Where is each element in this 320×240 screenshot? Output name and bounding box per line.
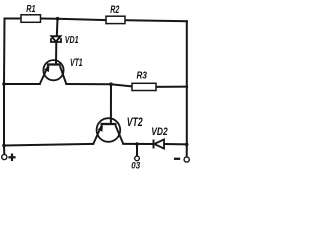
junction right rail / R3 — [185, 85, 188, 88]
svg-text:R2: R2 — [110, 4, 120, 16]
junction node A — [56, 17, 60, 21]
wire left rail — [3, 19, 6, 155]
junction left rail / VT1 emitter — [2, 82, 6, 86]
svg-text:VD2: VD2 — [151, 126, 168, 139]
svg-text:VT2: VT2 — [127, 117, 143, 130]
wire R1 to R2 through node A — [41, 19, 107, 21]
resistor R1 — [21, 3, 41, 22]
wire VT1 collector to node B — [66, 84, 132, 86]
wire VT2 collector to VD2 anode side — [123, 143, 152, 145]
terminal minus — [174, 157, 189, 162]
junction node B — [109, 82, 113, 86]
terminal output — [131, 156, 140, 170]
junction right rail / VD2 — [185, 143, 189, 147]
zener diode VD1 — [51, 34, 79, 45]
wire node B to VT2 base — [110, 84, 112, 124]
wire VD2 to right rail — [164, 143, 187, 145]
minus sign — [174, 158, 180, 160]
wire R3 to right rail — [156, 86, 187, 88]
junction bottom-left — [2, 144, 6, 148]
wire node A down to VD1 — [56, 19, 59, 37]
wire R2 to top-right corner — [125, 20, 187, 21]
diode VD2 — [151, 126, 168, 148]
wire top-left corner to R1 — [5, 18, 22, 20]
terminal plus — [2, 154, 16, 162]
svg-text:VT1: VT1 — [70, 56, 83, 68]
transistor VT1 (PNP) — [40, 56, 83, 84]
svg-text:03: 03 — [131, 160, 140, 171]
svg-text:VD1: VD1 — [65, 34, 79, 45]
svg-text:R3: R3 — [137, 70, 148, 81]
plus sign — [8, 156, 15, 158]
resistor R3 — [132, 70, 156, 91]
wire bottom rail to VT2 emitter — [4, 144, 93, 146]
svg-text:R1: R1 — [26, 3, 35, 15]
wire VT1 emitter to left rail — [4, 83, 40, 85]
wire right rail — [186, 21, 188, 156]
junction node C output — [135, 142, 139, 146]
wire VD1 cathode to VT1 base — [55, 43, 57, 65]
resistor R2 — [106, 4, 125, 24]
transistor VT2 (PNP) — [93, 117, 142, 144]
wire output stub from node C — [136, 144, 138, 156]
